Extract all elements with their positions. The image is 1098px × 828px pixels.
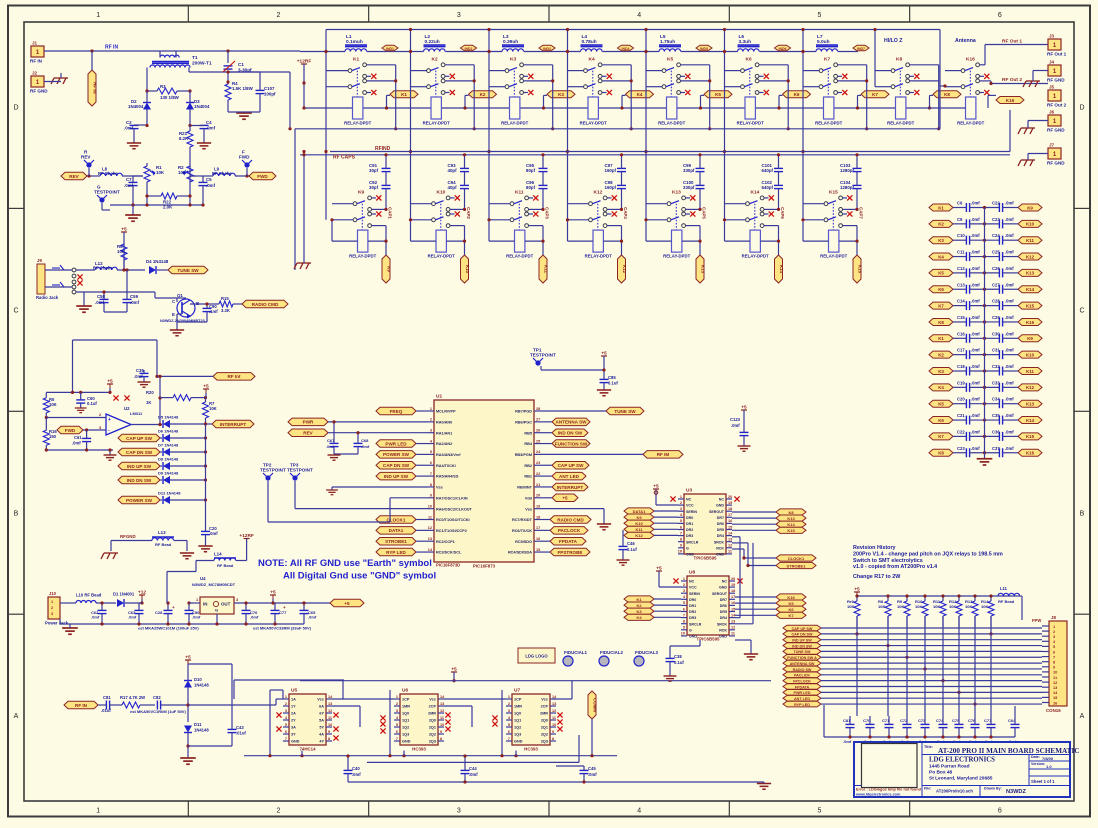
capacitor C4 — [188, 120, 215, 143]
tag K6 — [783, 91, 811, 98]
tag FPSTROBE r — [540, 548, 590, 556]
svg-text:10K: 10K — [897, 604, 904, 609]
svg-text:est MKA25WC101M (100uF 25V): est MKA25WC101M (100uF 25V) — [138, 626, 199, 631]
svg-text:RA1/AN1: RA1/AN1 — [436, 431, 452, 435]
label C72 — [900, 739, 909, 744]
svg-text:11: 11 — [731, 632, 735, 636]
svg-text:+5: +5 — [854, 587, 860, 593]
diode D8 — [118, 457, 207, 471]
svg-text:13: 13 — [440, 702, 444, 706]
svg-text:3: 3 — [457, 808, 461, 815]
wire bank bus3 — [300, 154, 1010, 156]
svg-text:C22: C22 — [957, 429, 965, 434]
svg-text:19: 19 — [536, 504, 540, 508]
wire rnet verticals — [857, 616, 991, 716]
svg-text:10: 10 — [678, 550, 682, 554]
svg-text:DR0: DR0 — [689, 598, 696, 602]
svg-text:.0mf: .0mf — [843, 739, 852, 744]
chip U3 — [678, 488, 733, 561]
svg-text:2: 2 — [51, 606, 53, 610]
svg-text:NC: NC — [689, 580, 695, 584]
capacitor C20 — [201, 526, 218, 546]
svg-text:RF IN: RF IN — [93, 82, 98, 93]
wire pic9 TP2 — [268, 481, 428, 522]
capacitor row C9 — [929, 217, 1042, 229]
+5 R6 — [121, 227, 127, 271]
text CAP5 net — [702, 207, 707, 219]
tag RF IN bot — [64, 701, 98, 709]
gnd U3U8 — [735, 640, 758, 660]
capacitor C74 — [936, 716, 948, 737]
svg-text:STROBE1: STROBE1 — [385, 539, 407, 544]
svg-text:.0mf: .0mf — [971, 201, 980, 206]
tag FREQ — [376, 407, 428, 415]
resistor R3 — [145, 84, 191, 100]
svg-text:TUNE SW: TUNE SW — [614, 409, 636, 414]
svg-text:160pf: 160pf — [605, 168, 617, 173]
tag RF IN vert — [88, 51, 98, 106]
svg-text:K11: K11 — [515, 190, 524, 196]
svg-text:TESTPOINT: TESTPOINT — [287, 468, 313, 473]
junction rnet — [941, 679, 944, 682]
svg-text:J6: J6 — [1049, 110, 1055, 115]
svg-text:L10 RF Bead: L10 RF Bead — [76, 593, 102, 598]
svg-text:ANTENNA SW: ANTENNA SW — [790, 662, 815, 666]
svg-text:25: 25 — [536, 439, 540, 443]
svg-text:K1: K1 — [938, 205, 944, 210]
svg-text:2Y: 2Y — [291, 719, 296, 723]
svg-text:D4 1N4148: D4 1N4148 — [146, 259, 169, 264]
svg-text:SRCK: SRCK — [717, 622, 728, 626]
svg-text:1N4148: 1N4148 — [194, 728, 209, 733]
text RFCAPS — [333, 155, 356, 161]
svg-text:3: 3 — [683, 589, 685, 593]
resistor R17 — [120, 695, 155, 708]
svg-text:16: 16 — [728, 519, 732, 523]
svg-text:K12: K12 — [1026, 385, 1035, 390]
svg-text:.0mf: .0mf — [469, 772, 478, 777]
text Antenna — [955, 38, 976, 44]
svg-text:5: 5 — [396, 723, 398, 727]
svg-text:6: 6 — [396, 730, 398, 734]
svg-text:SRCLR: SRCLR — [689, 622, 702, 626]
svg-text:DR7: DR7 — [717, 516, 724, 520]
svg-text:FPW: FPW — [1032, 618, 1041, 623]
diode D3 — [186, 91, 210, 126]
svg-text:8: 8 — [680, 538, 682, 542]
wire opamp toprail — [46, 391, 110, 394]
svg-text:K13: K13 — [672, 190, 681, 196]
svg-text:SRCLR: SRCLR — [686, 540, 699, 544]
wire feedback bus — [244, 754, 617, 757]
svg-text:.0mf: .0mf — [124, 126, 134, 131]
resistor R8 — [878, 594, 891, 627]
svg-text:1Q0: 1Q0 — [514, 712, 521, 716]
capacitor C65b — [300, 601, 317, 624]
wire relay K3 conns — [487, 28, 554, 220]
svg-text:CAP7: CAP7 — [859, 207, 864, 219]
capacitor C50 — [185, 601, 201, 624]
svg-text:D11: D11 — [194, 722, 202, 727]
svg-text:RB4: RB4 — [524, 442, 532, 446]
svg-text:Antenna: Antenna — [955, 38, 976, 44]
xmark u567 — [445, 726, 450, 731]
svg-text:CAP UP SW: CAP UP SW — [126, 436, 153, 441]
testpoint TP3 — [287, 463, 313, 481]
tag K1 — [390, 91, 418, 98]
svg-text:IND UP SW: IND UP SW — [384, 474, 409, 479]
svg-text:+5: +5 — [270, 590, 276, 596]
svg-text:0.78uh: 0.78uh — [582, 39, 597, 45]
svg-text:R4: R4 — [232, 81, 238, 86]
tag stack FPCLOCK — [783, 678, 1042, 684]
relay K4 — [580, 57, 612, 126]
svg-text:K14: K14 — [751, 190, 760, 196]
svg-text:STROBE1: STROBE1 — [787, 563, 807, 568]
connector J7 — [1047, 143, 1065, 166]
svg-text:K12: K12 — [1026, 254, 1035, 259]
svg-text:CAP6: CAP6 — [780, 207, 785, 219]
svg-text:2: 2 — [430, 418, 432, 422]
svg-text:PIC16F873: PIC16F873 — [473, 564, 496, 569]
tag U8 K1 — [624, 596, 681, 602]
svg-text:K4: K4 — [938, 385, 944, 390]
capacitor C1 — [223, 51, 252, 82]
svg-text:6: 6 — [680, 525, 682, 529]
svg-text:K8: K8 — [944, 92, 950, 97]
svg-text:U8: U8 — [689, 570, 695, 576]
tag stack PWR LED — [783, 690, 1042, 696]
wire bank bus1 — [295, 86, 940, 270]
capacitor C2 — [124, 120, 149, 131]
capacitor row C17 — [929, 348, 1042, 360]
capacitor C95/C96 — [526, 153, 548, 209]
diode D2 — [128, 91, 151, 126]
svg-text:.0mf: .0mf — [971, 364, 980, 369]
text FPW — [1032, 618, 1041, 623]
svg-text:C11: C11 — [957, 250, 965, 255]
svg-text:ANT LED: ANT LED — [794, 697, 810, 701]
svg-text:D: D — [13, 104, 18, 111]
svg-text:10K: 10K — [981, 604, 988, 609]
relay K2 — [423, 57, 455, 126]
svg-text:5: 5 — [285, 723, 287, 727]
svg-text:.0mf: .0mf — [206, 126, 216, 131]
svg-text:11: 11 — [328, 716, 332, 720]
svg-text:20: 20 — [728, 495, 732, 499]
gnd D11 — [180, 744, 196, 764]
xmarks opamp — [113, 395, 129, 400]
svg-text:RADIO CMD: RADIO CMD — [557, 517, 584, 522]
wire caps gndrow — [824, 705, 1015, 739]
svg-text:K6: K6 — [794, 92, 800, 97]
svg-text:2Q3: 2Q3 — [541, 740, 548, 744]
capacitor C7pair — [124, 176, 143, 205]
text CAP1 net — [388, 207, 393, 219]
svg-text:LM311: LM311 — [130, 411, 143, 416]
svg-text:ANT LED: ANT LED — [559, 474, 580, 479]
svg-text:K2: K2 — [432, 57, 438, 63]
svg-text:IND1: IND1 — [386, 47, 394, 51]
relay K9 — [349, 190, 381, 259]
label C71 — [882, 739, 891, 744]
tag POWER SW — [376, 451, 428, 459]
svg-text:Date:: Date: — [1031, 755, 1040, 759]
svg-text:7: 7 — [396, 737, 398, 741]
text RFGND — [120, 534, 136, 539]
capacitor C61 — [72, 430, 91, 450]
tag K5 — [704, 91, 732, 98]
svg-text:.0mf: .0mf — [731, 423, 740, 428]
svg-text:RC2/CCP1: RC2/CCP1 — [436, 540, 455, 544]
capacitor row C14 — [929, 299, 1042, 311]
capacitor C99/C100 — [683, 153, 705, 209]
inductor L6 — [738, 34, 817, 52]
resistor R21 — [179, 126, 193, 171]
tag U3r K8 — [732, 509, 806, 515]
svg-text:10K: 10K — [915, 604, 922, 609]
svg-text:RELAY-DPDT: RELAY-DPDT — [815, 121, 842, 126]
svg-text:K2: K2 — [938, 222, 944, 227]
svg-text:RCK: RCK — [716, 546, 724, 550]
svg-text:40pf: 40pf — [448, 168, 458, 173]
text CAP6 net — [780, 207, 785, 219]
svg-text:3: 3 — [430, 429, 432, 433]
wire u6 loops — [390, 690, 502, 756]
svg-text:RCK: RCK — [719, 628, 727, 632]
svg-text:10K: 10K — [178, 170, 187, 175]
relay K5 — [658, 57, 690, 126]
revision history text — [853, 545, 1003, 580]
capacitor C101/C102 — [762, 153, 784, 209]
svg-text:13: 13 — [552, 702, 556, 706]
svg-text:K15: K15 — [787, 528, 795, 533]
svg-text:3: 3 — [508, 709, 510, 713]
svg-text:C14: C14 — [957, 299, 965, 304]
diode D11 — [184, 722, 209, 758]
text CAP7 net — [859, 207, 864, 219]
inductor L8 — [87, 167, 143, 178]
tag PWR LED — [376, 440, 428, 448]
svg-text:+5: +5 — [185, 655, 191, 661]
svg-text:D8 1N4148: D8 1N4148 — [158, 457, 179, 462]
svg-text:C59: C59 — [130, 294, 139, 299]
svg-text:.0mf: .0mf — [1005, 266, 1014, 271]
svg-text:B: B — [14, 510, 19, 517]
svg-text:.0mf: .0mf — [971, 348, 980, 353]
svg-text:RELAY-DPDT: RELAY-DPDT — [344, 121, 371, 126]
svg-text:K15: K15 — [1026, 303, 1035, 308]
capacitor row C19 — [929, 380, 1042, 392]
svg-text:K10: K10 — [1026, 222, 1035, 227]
svg-text:INTERRUPT: INTERRUPT — [557, 485, 583, 490]
svg-text:.0mf: .0mf — [308, 615, 317, 620]
svg-text:CLOCK1: CLOCK1 — [788, 556, 805, 561]
svg-text:RB7/PGD: RB7/PGD — [515, 410, 532, 414]
svg-text:640pf: 640pf — [762, 185, 774, 190]
svg-text:.1mf: .1mf — [209, 309, 218, 314]
svg-text:1445 Parran Road: 1445 Parran Road — [929, 764, 970, 770]
svg-text:3: 3 — [680, 507, 682, 511]
svg-text:CAP4: CAP4 — [623, 207, 628, 219]
relay K7 — [815, 57, 847, 126]
tag REV — [61, 172, 87, 180]
svg-text:NC: NC — [722, 580, 728, 584]
capacitor C28 — [155, 601, 175, 624]
svg-text:NOTE: All RF GND use "Earth" s: NOTE: All RF GND use "Earth" symbol — [258, 558, 432, 569]
svg-text:200Pro V1.4 - change pad pitch: 200Pro V1.4 - change pad pitch on JQX re… — [853, 551, 1003, 557]
svg-text:RB0/INT: RB0/INT — [517, 486, 532, 490]
svg-text:C: C — [13, 307, 18, 314]
svg-text:K12: K12 — [594, 190, 603, 196]
svg-text:C82: C82 — [153, 695, 161, 700]
diode D10 — [184, 664, 209, 722]
wire pic19 gnd — [0, 0, 1, 1]
wire opamp loop — [73, 340, 159, 392]
tag K10 coil — [461, 255, 471, 283]
svg-text:K13: K13 — [787, 516, 795, 521]
svg-text:A: A — [14, 713, 19, 720]
tag stack RYP LED — [783, 701, 1042, 707]
svg-text:1Q2: 1Q2 — [402, 726, 409, 730]
svg-text:1: 1 — [508, 695, 510, 699]
testpoint TP1 — [530, 348, 556, 366]
xmark U3 1 — [670, 496, 739, 501]
svg-text:9: 9 — [430, 494, 432, 498]
+5 C85 — [601, 351, 607, 373]
svg-text:REV: REV — [69, 174, 79, 179]
svg-text:St Leonard, Maryland 20685: St Leonard, Maryland 20685 — [929, 776, 993, 782]
svg-text:17: 17 — [731, 595, 735, 599]
svg-text:80pf: 80pf — [526, 168, 536, 173]
capacitor C76 — [968, 716, 980, 737]
text mka1 — [138, 626, 199, 631]
chip U8 — [681, 570, 736, 642]
svg-text:+5: +5 — [344, 601, 350, 606]
capacitor row C18 — [929, 364, 1042, 376]
svg-text:RELAY-DPDT: RELAY-DPDT — [887, 121, 914, 126]
svg-text:20: 20 — [536, 494, 540, 498]
label C74 — [936, 739, 945, 744]
svg-text:18: 18 — [536, 515, 540, 519]
svg-text:C44: C44 — [469, 766, 477, 771]
svg-text:Revision History: Revision History — [853, 545, 896, 551]
svg-text:1Y: 1Y — [291, 705, 296, 709]
svg-text:.0mf: .0mf — [250, 615, 259, 620]
svg-text:E: E — [172, 312, 175, 317]
text RFIND — [375, 146, 391, 152]
svg-text:GND: GND — [719, 586, 727, 590]
svg-text:K11: K11 — [1026, 238, 1034, 243]
svg-text:C26: C26 — [992, 266, 1000, 271]
svg-text:IND2: IND2 — [465, 47, 473, 51]
svg-text:D5 1N4148: D5 1N4148 — [158, 415, 179, 420]
svg-text:K10: K10 — [437, 190, 446, 196]
resistor R6 — [117, 244, 127, 272]
tag K7 — [861, 91, 889, 98]
PIC U1 — [428, 394, 541, 569]
transistor Q1 — [160, 293, 205, 323]
svg-text:Q1: Q1 — [177, 293, 183, 298]
svg-text:5A: 5A — [319, 719, 324, 723]
svg-text:23: 23 — [536, 461, 540, 465]
svg-text:130 1/8W: 130 1/8W — [160, 95, 180, 100]
svg-text:3.3K: 3.3K — [221, 308, 230, 313]
fiducial 2 — [599, 650, 623, 666]
svg-text:.0mf: .0mf — [971, 250, 980, 255]
capacitor row C12 — [929, 266, 1042, 278]
svg-text:0.22uh: 0.22uh — [425, 39, 440, 45]
svg-text:2Q1: 2Q1 — [541, 726, 548, 730]
svg-text:.0mf: .0mf — [124, 183, 134, 188]
capacitor C45 — [556, 766, 597, 782]
svg-text:0.1uf: 0.1uf — [608, 381, 618, 386]
svg-text:10K: 10K — [949, 604, 956, 609]
svg-text:1CP: 1CP — [514, 698, 522, 702]
svg-text:K7: K7 — [872, 92, 878, 97]
tag U3r K15 — [732, 527, 806, 533]
svg-text:C43: C43 — [236, 725, 244, 730]
svg-text:30pf: 30pf — [369, 168, 379, 173]
svg-text:12: 12 — [552, 709, 556, 713]
op-amp U2 LM311 — [99, 406, 143, 435]
svg-text:C5: C5 — [206, 177, 212, 182]
svg-text:SEROUT: SEROUT — [712, 592, 728, 596]
wire relay K15 conns — [801, 204, 858, 255]
junction rnet — [855, 632, 858, 635]
diode D12 — [118, 491, 207, 505]
wire relay K9 conns — [330, 204, 387, 255]
inductor L9 — [203, 167, 252, 178]
svg-text:+12: +12 — [138, 590, 146, 596]
svg-text:K6: K6 — [938, 418, 944, 423]
wire pin8 gnd — [326, 487, 428, 495]
svg-text:IND UP SW: IND UP SW — [792, 639, 812, 643]
capacitor C75 — [952, 716, 964, 737]
svg-text:RF Choke: RF Choke — [98, 171, 118, 176]
svg-text:CAP UP SW: CAP UP SW — [558, 463, 585, 468]
tag IND UP SW — [376, 472, 428, 480]
wire pic10 TP3 — [295, 481, 428, 509]
svg-text:C81: C81 — [103, 695, 111, 700]
svg-text:K16: K16 — [1026, 320, 1035, 325]
svg-text:Vdd: Vdd — [525, 496, 533, 500]
svg-text:K16: K16 — [1006, 98, 1015, 103]
svg-text:K4: K4 — [637, 92, 643, 97]
regulator U4 — [192, 576, 238, 614]
svg-text:C9: C9 — [957, 217, 963, 222]
svg-text:.0mf: .0mf — [128, 615, 137, 620]
svg-text:J10: J10 — [49, 591, 57, 596]
svg-text:9: 9 — [680, 544, 682, 548]
text mka2 — [253, 626, 312, 631]
svg-text:J2: J2 — [32, 71, 38, 76]
tag stack CAP DN SW — [783, 631, 1042, 637]
wire tp1 — [541, 366, 606, 372]
svg-text:FPCLOCK: FPCLOCK — [793, 679, 811, 683]
svg-text:.0mf: .0mf — [1005, 348, 1014, 353]
text HI/LO Z — [884, 38, 903, 44]
xmark u567 — [333, 735, 338, 740]
wire relay K6 conns — [723, 28, 790, 220]
svg-text:GND: GND — [402, 740, 411, 744]
svg-text:RA6/OSC2/CLKOUT: RA6/OSC2/CLKOUT — [436, 507, 473, 511]
xmark u567 — [333, 712, 338, 717]
jack contacts — [45, 265, 83, 294]
svg-text:15: 15 — [728, 525, 732, 529]
svg-text:K9: K9 — [1027, 336, 1033, 341]
capacitor row C23 — [929, 446, 1042, 458]
